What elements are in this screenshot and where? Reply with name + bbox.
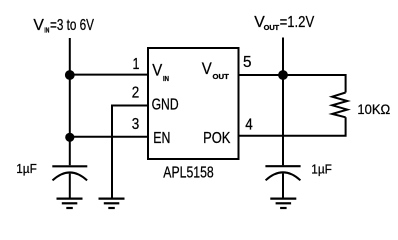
svg-text:10KΩ: 10KΩ	[357, 102, 390, 117]
svg-text:2: 2	[132, 85, 140, 102]
node junction VIN/pin1	[65, 70, 75, 80]
node junction VIN/EN	[65, 133, 74, 142]
wire pin3 EN to VIN rail	[70, 136, 148, 138]
svg-text:4: 4	[245, 117, 253, 134]
svg-text:APL5158: APL5158	[163, 164, 213, 181]
wire pin2 GND to ground	[112, 106, 148, 198]
svg-text:IN: IN	[163, 76, 169, 83]
wire C1 to ground	[69, 174, 71, 198]
svg-text:V: V	[33, 17, 44, 34]
svg-text:1µF: 1µF	[311, 162, 332, 176]
svg-text:OUT: OUT	[213, 74, 230, 81]
label VIN=3 to 6V	[33, 17, 94, 35]
svg-text:OUT: OUT	[264, 25, 280, 32]
resistor R1 zigzag	[332, 93, 347, 118]
capacitor C2 curved plate	[266, 172, 301, 180]
wire pin4 POK to resistor bottom	[239, 117, 346, 136]
node junction VOUT	[278, 70, 288, 80]
wire pin5 VOUT to resistor top	[239, 75, 346, 93]
svg-text:GND: GND	[152, 97, 179, 114]
svg-text:IN: IN	[44, 28, 49, 35]
capacitor C2 top plate	[265, 165, 300, 167]
svg-text:=3 to 6V: =3 to 6V	[50, 17, 94, 34]
capacitor C1 top plate	[52, 165, 87, 167]
wire pin1 VIN to IC	[70, 74, 148, 76]
svg-text:V: V	[152, 61, 162, 79]
op-amp U1 APL5158 box	[148, 48, 239, 159]
wire C2 to ground	[282, 174, 284, 198]
svg-text:1: 1	[133, 56, 140, 73]
wire VOUT vertical rail	[282, 38, 284, 166]
svg-text:EN: EN	[153, 130, 170, 147]
svg-text:=1.2V: =1.2V	[280, 14, 315, 31]
ground under GND pin	[99, 199, 125, 208]
label VOUT=1.2V	[254, 14, 314, 32]
ground under C2	[270, 199, 296, 208]
svg-text:V: V	[202, 60, 212, 78]
capacitor C1 curved plate	[53, 172, 88, 180]
wire VIN vertical rail	[69, 38, 71, 165]
svg-text:5: 5	[243, 54, 252, 71]
svg-text:3: 3	[132, 116, 140, 133]
svg-text:1µF: 1µF	[16, 162, 37, 176]
svg-text:POK: POK	[203, 130, 231, 147]
pin label VIN inside IC	[152, 61, 169, 83]
ground under C1	[57, 199, 83, 208]
pin label VOUT inside IC	[202, 60, 230, 81]
